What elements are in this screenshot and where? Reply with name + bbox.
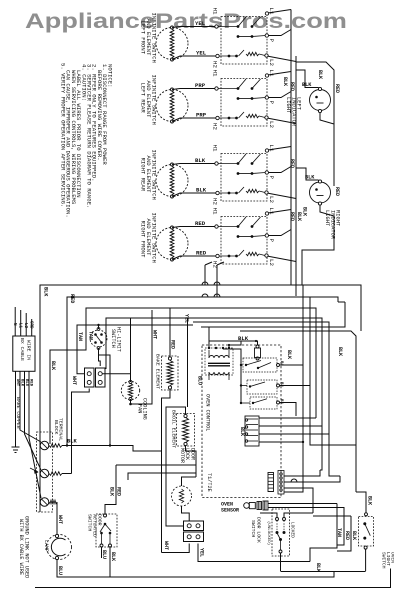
switch contacts xyxy=(218,154,265,194)
relay row B xyxy=(247,380,283,394)
terminal block lug 1 xyxy=(40,441,62,450)
switch contacts xyxy=(218,17,265,57)
svg-text:RIGHT FRONT: RIGHT FRONT xyxy=(140,221,147,259)
label DOOR LOCK SWITCH xyxy=(250,517,262,543)
wire WHT riser xyxy=(71,376,89,474)
wires to buses xyxy=(268,147,296,199)
label GROUND LINK NOT USED WITH BX CABLE WIRE xyxy=(18,516,30,578)
svg-text:BLK: BLK xyxy=(110,552,116,561)
infinite switch box RIGHT REAR xyxy=(221,154,267,202)
svg-text:BLK: BLK xyxy=(286,350,292,359)
svg-text:BLU: BLU xyxy=(197,376,203,385)
svg-text:LEFT REAR: LEFT REAR xyxy=(140,83,147,114)
svg-text:RED: RED xyxy=(195,220,206,227)
svg-text:B3: B3 xyxy=(279,399,283,404)
wires to buses xyxy=(268,10,296,62)
switch contacts xyxy=(218,217,265,257)
svg-text:BLK: BLK xyxy=(337,347,343,356)
svg-text:BX CABLE: BX CABLE xyxy=(19,338,25,361)
svg-text:BLOCK: BLOCK xyxy=(53,420,59,435)
transformer T1 xyxy=(205,347,233,380)
svg-text:BLK: BLK xyxy=(302,82,312,88)
svg-text:RIGHT REAR: RIGHT REAR xyxy=(140,158,147,192)
terminal H2 xyxy=(212,191,220,205)
svg-text:BLU: BLU xyxy=(101,550,107,559)
connector wires to buses xyxy=(259,417,329,443)
label COOLING FAN xyxy=(137,398,148,420)
broil element box xyxy=(177,414,195,447)
terminal H1 xyxy=(212,8,219,29)
svg-text:RED: RED xyxy=(289,212,295,221)
svg-text:H2: H2 xyxy=(212,198,219,205)
bus line B RED xyxy=(67,294,338,446)
svg-text:5. VERIFY PROPER OPERATION AFT: 5. VERIFY PROPER OPERATION AFTER SERVICI… xyxy=(60,63,67,207)
svg-text:BLK: BLK xyxy=(351,531,357,540)
svg-text:RED: RED xyxy=(344,531,350,540)
connector wires xyxy=(102,318,130,374)
relay output wires xyxy=(280,365,311,416)
svg-text:B1: B1 xyxy=(279,361,283,366)
svg-text:BAKE ELEMENT: BAKE ELEMENT xyxy=(155,354,161,389)
svg-text:H1: H1 xyxy=(212,208,219,215)
svg-text:GRD: GRD xyxy=(28,321,32,329)
svg-text:WITH BX CABLE WIRE: WITH BX CABLE WIRE xyxy=(18,519,24,575)
terminal P xyxy=(265,234,275,243)
svg-text:RED: RED xyxy=(28,379,32,387)
bus L2 vertical xyxy=(295,56,297,296)
svg-text:WHT: WHT xyxy=(57,515,63,524)
svg-text:L1: L1 xyxy=(268,208,275,215)
lamp wires xyxy=(57,560,334,578)
infinite switch box LEFT FRONT xyxy=(221,17,267,65)
terminal L1 xyxy=(265,8,275,16)
terminal L2 xyxy=(265,54,275,67)
hi-limit switch xyxy=(90,328,107,350)
bus labels xyxy=(282,77,302,221)
svg-text:BLK: BLK xyxy=(367,496,373,505)
label BROIL ELEMENT xyxy=(171,410,177,448)
svg-text:LOCKED: LOCKED xyxy=(290,522,295,538)
terminal P xyxy=(265,96,275,105)
terminal block lug 2 xyxy=(40,469,62,478)
svg-text:OVEN CONTROL: OVEN CONTROL xyxy=(205,394,211,431)
hi-limit wires xyxy=(99,325,111,446)
label T1/T2E xyxy=(206,473,212,492)
svg-text:P: P xyxy=(268,176,275,180)
wire element to H2 (PRP) xyxy=(172,112,216,122)
terminal L2 xyxy=(265,254,275,267)
infinite switch box LEFT REAR xyxy=(221,79,267,127)
svg-text:WHT: WHT xyxy=(152,330,158,339)
svg-text:LIGHT: LIGHT xyxy=(324,210,330,227)
bake element xyxy=(167,357,173,389)
label RIGHT INDICATOR LIGHT xyxy=(324,210,341,240)
svg-text:MOTOR: MOTOR xyxy=(179,448,185,463)
bus L1 vertical xyxy=(290,10,292,286)
cooling fan xyxy=(121,381,139,401)
wire BLK top of control xyxy=(209,327,257,348)
element circle LEFT FRONT xyxy=(156,26,188,61)
svg-text:BLK: BLK xyxy=(296,212,302,221)
door lock switch box xyxy=(272,509,290,556)
svg-text:T1/T2E: T1/T2E xyxy=(206,473,212,492)
svg-text:L2: L2 xyxy=(268,121,275,128)
door actuated switch contacts xyxy=(100,514,112,547)
svg-text:L2: L2 xyxy=(268,196,275,203)
notice text block xyxy=(60,63,114,218)
svg-text:RED: RED xyxy=(334,187,340,196)
wire in BX cable box xyxy=(13,336,35,371)
oven control dashed box xyxy=(202,345,281,498)
svg-text:YEL: YEL xyxy=(196,50,207,57)
terminal P xyxy=(265,34,275,43)
bus line E xyxy=(193,322,329,434)
svg-text:FAN: FAN xyxy=(137,404,143,413)
svg-text:WHT: WHT xyxy=(15,379,19,387)
terminal H2 xyxy=(212,54,220,68)
svg-text:BLK: BLK xyxy=(195,157,206,164)
svg-text:BLK: BLK xyxy=(238,335,249,342)
terminal H2 xyxy=(212,254,220,268)
bake wires xyxy=(162,308,190,553)
wire right indicator bottom xyxy=(302,187,341,285)
red bus upper xyxy=(296,62,334,124)
wires BX box to terminal block xyxy=(15,371,41,498)
svg-text:H2: H2 xyxy=(212,123,219,130)
svg-text:L2: L2 xyxy=(268,259,275,266)
element circle RIGHT FRONT xyxy=(156,226,188,261)
svg-text:SWITCH: SWITCH xyxy=(250,520,256,537)
svg-text:BLK: BLK xyxy=(315,563,321,572)
svg-text:L1: L1 xyxy=(268,8,275,15)
wire TAN vertical xyxy=(77,324,193,374)
ground symbol xyxy=(12,447,20,453)
svg-text:BLU: BLU xyxy=(57,566,63,575)
svg-text:L1: L1 xyxy=(17,323,21,329)
svg-text:BLK: BLK xyxy=(302,207,308,216)
label TERMINAL BLOCK xyxy=(53,418,63,441)
connector block pair lower xyxy=(184,521,204,542)
infinite switch box RIGHT FRONT xyxy=(221,217,267,265)
relay feed vertical xyxy=(223,349,250,404)
svg-text:SENSOR: SENSOR xyxy=(221,508,239,514)
wire element to H1 (YEL) xyxy=(172,20,215,27)
svg-text:RED: RED xyxy=(69,294,75,303)
oven fuse xyxy=(255,341,293,360)
svg-text:DOOR LOCK: DOOR LOCK xyxy=(256,517,262,543)
door lock motor xyxy=(172,486,192,506)
svg-text:WHT: WHT xyxy=(163,541,169,550)
bus line G xyxy=(240,331,356,492)
label OVEN LIGHT SWITCH xyxy=(381,552,394,569)
wire RED to door switch xyxy=(105,465,196,514)
svg-text:TAN: TAN xyxy=(88,331,94,340)
bake element box xyxy=(162,356,179,390)
oven light switch contacts xyxy=(363,513,370,549)
wire element to H2 (RED) xyxy=(172,250,216,260)
svg-text:H2: H2 xyxy=(212,61,219,68)
wire from lug2 xyxy=(62,473,72,475)
terminal L1 xyxy=(265,208,275,216)
connector block pair xyxy=(85,368,106,387)
control output connector xyxy=(239,416,259,446)
label OVEN CONTROL xyxy=(205,394,211,431)
wire BLK from lug1 xyxy=(62,439,162,452)
element circle LEFT REAR xyxy=(156,88,188,123)
svg-text:BLK: BLK xyxy=(239,427,245,436)
label BLU xyxy=(197,376,203,385)
svg-text:L2: L2 xyxy=(23,323,27,329)
svg-text:RED: RED xyxy=(289,159,295,168)
wire WHT vertical 152 xyxy=(131,310,158,404)
svg-text:BLK: BLK xyxy=(282,77,288,86)
svg-text:BLK: BLK xyxy=(67,439,77,445)
bottom frame line xyxy=(35,569,391,588)
label TAN left of hi-limit xyxy=(88,331,94,340)
bus line C xyxy=(50,308,316,444)
label INFINITE SWITCH AND ELEMENT RIGHT REAR xyxy=(140,150,158,200)
terminal block dashed box xyxy=(37,432,53,512)
label DOOR ACTUATED SWITCH xyxy=(87,514,103,537)
wire WHT from lug3 down to lamp xyxy=(57,502,63,536)
row4 feed stubs xyxy=(205,262,224,297)
label INFINITE SWITCH AND ELEMENT LEFT FRONT xyxy=(140,13,158,63)
svg-text:(UNLOCKED): (UNLOCKED) xyxy=(266,521,271,545)
wire element to H1 (BLK) xyxy=(172,157,215,164)
svg-text:SWITCH: SWITCH xyxy=(87,514,93,531)
svg-text:BLK: BLK xyxy=(43,287,49,297)
oven sensor xyxy=(221,501,268,514)
terminal L1 xyxy=(265,70,275,78)
svg-text:BLK: BLK xyxy=(50,361,56,370)
svg-text:YEL: YEL xyxy=(199,548,205,557)
wire to right indicator top BLK xyxy=(296,168,319,181)
terminal H1 xyxy=(212,208,219,229)
label INFINITE SWITCH AND ELEMENT RIGHT FRONT xyxy=(140,213,158,263)
svg-text:SWITCH: SWITCH xyxy=(381,552,387,569)
wire BLK horizontal xyxy=(128,473,196,480)
svg-text:P: P xyxy=(268,239,275,243)
bus line A outer to oven light switch xyxy=(40,285,373,512)
terminal P xyxy=(265,171,275,180)
label BAKE ELEMENT xyxy=(155,354,161,389)
svg-text:WIRE IN: WIRE IN xyxy=(26,340,32,360)
label LAMP xyxy=(43,540,49,552)
svg-text:RED: RED xyxy=(116,487,122,496)
right indicator light xyxy=(310,180,331,205)
TAN RED BLK sensor wires xyxy=(310,504,357,562)
svg-text:BLK: BLK xyxy=(196,187,207,194)
svg-text:L1: L1 xyxy=(268,145,275,152)
svg-text:SWITCH: SWITCH xyxy=(110,329,116,348)
oven light switch box xyxy=(359,517,374,547)
svg-text:RED: RED xyxy=(289,82,295,91)
broil wires xyxy=(166,318,196,526)
relay row C xyxy=(250,397,283,409)
bottom bus connectors xyxy=(320,426,340,476)
bus line H right edge xyxy=(360,285,362,331)
bus line D xyxy=(106,318,322,426)
wires to buses xyxy=(268,210,296,262)
svg-text:WHT: WHT xyxy=(71,376,77,385)
oven sensor wires xyxy=(268,504,344,517)
label LEFT INDICATOR LIGHT xyxy=(285,97,302,127)
element circle RIGHT REAR xyxy=(156,163,188,198)
svg-text:BLU: BLU xyxy=(24,379,28,387)
cooling fan wires xyxy=(129,318,132,405)
bus junction verticals xyxy=(303,285,356,445)
svg-text:H1: H1 xyxy=(212,70,219,77)
svg-text:LEFT FRONT: LEFT FRONT xyxy=(140,21,147,55)
wire element to H2 (YEL) xyxy=(172,50,216,60)
terminal block lug 3 xyxy=(40,498,57,507)
terminal H2 xyxy=(212,116,220,130)
terminal H1 xyxy=(212,70,219,91)
watermark AppliancePartsPros.com xyxy=(25,10,347,33)
T1/T2 wires right xyxy=(284,442,340,513)
svg-text:H1: H1 xyxy=(212,145,219,152)
svg-text:BROIL ELEMENT: BROIL ELEMENT xyxy=(171,410,177,448)
door actuated switch box xyxy=(96,514,117,547)
left indicator light xyxy=(310,87,331,112)
bus line F xyxy=(201,302,345,327)
broil element xyxy=(183,414,189,445)
terminal L2 xyxy=(265,191,275,204)
door lock switch contacts xyxy=(266,518,295,554)
mains entry wires N L1 L2 GRD xyxy=(12,307,33,336)
wire element to H1 (PRP) xyxy=(172,82,215,89)
svg-text:LIGHT: LIGHT xyxy=(285,97,291,114)
svg-text:BLK: BLK xyxy=(305,175,315,181)
wire to left indicator top BLK xyxy=(296,70,323,88)
svg-text:PRP: PRP xyxy=(195,82,206,89)
wires to buses xyxy=(268,72,296,124)
ground link arrow xyxy=(30,468,39,474)
label BLK mid xyxy=(50,361,56,370)
svg-text:AppliancePartsPros.com: AppliancePartsPros.com xyxy=(25,10,347,33)
terminal H1 xyxy=(212,145,219,166)
door lock motor wires xyxy=(182,477,197,521)
svg-text:RED: RED xyxy=(334,84,340,93)
label BARE COPPER xyxy=(15,397,21,429)
label INFINITE SWITCH AND ELEMENT LEFT REAR xyxy=(140,75,158,125)
label HI-LIMIT SWITCH xyxy=(110,327,122,352)
svg-text:BLK: BLK xyxy=(19,379,23,387)
svg-text:YEL: YEL xyxy=(184,314,190,323)
terminal L1 xyxy=(265,145,275,153)
wire element to H2 (BLK) xyxy=(172,187,216,197)
svg-text:B2: B2 xyxy=(279,382,283,387)
terminal L2 xyxy=(265,116,275,129)
svg-text:RED: RED xyxy=(196,250,207,257)
svg-text:L2: L2 xyxy=(268,59,275,66)
svg-text:L1: L1 xyxy=(268,70,275,77)
svg-text:H1: H1 xyxy=(212,8,219,15)
svg-text:RED: RED xyxy=(170,340,176,349)
oven lamp xyxy=(47,534,72,559)
svg-text:LAMP: LAMP xyxy=(43,540,49,552)
svg-text:P: P xyxy=(268,39,275,43)
svg-text:BLK: BLK xyxy=(109,487,115,496)
svg-text:BLK: BLK xyxy=(317,70,323,79)
door actuated switch wires xyxy=(101,547,116,577)
label DOOR LOCK MOTOR xyxy=(179,448,195,463)
wire element to H1 (RED) xyxy=(172,220,215,227)
svg-text:TAN: TAN xyxy=(77,332,83,341)
relay row A xyxy=(243,358,283,372)
oven light switch wires xyxy=(356,492,366,571)
connector lower wires xyxy=(162,541,311,562)
svg-text:YEL: YEL xyxy=(195,20,206,27)
wire bottom 571 xyxy=(281,571,366,573)
svg-text:P: P xyxy=(268,101,275,105)
wire left indicator bottom to RED bus xyxy=(320,84,340,186)
svg-text:PRP: PRP xyxy=(196,112,207,119)
wire hop bumps xyxy=(202,282,220,297)
switch contacts xyxy=(218,79,265,119)
door lock switch wires xyxy=(260,513,321,572)
T1/T2 connector xyxy=(268,471,284,495)
